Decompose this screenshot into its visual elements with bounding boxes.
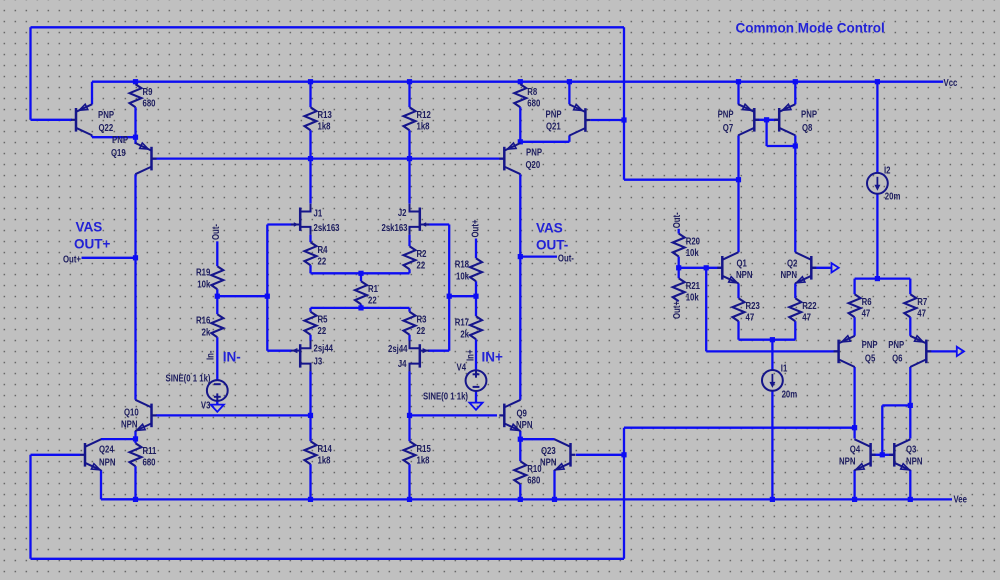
- svg-text:J1: J1: [314, 208, 323, 219]
- svg-text:R8: R8: [527, 86, 537, 97]
- svg-text:2sk163: 2sk163: [382, 222, 408, 233]
- svg-text:SINE(0 1 1k): SINE(0 1 1k): [423, 391, 468, 402]
- svg-text:Q2: Q2: [787, 257, 797, 268]
- svg-text:J4: J4: [398, 358, 407, 369]
- svg-text:Vee: Vee: [954, 494, 967, 505]
- svg-text:1k8: 1k8: [417, 455, 430, 466]
- svg-text:J3: J3: [314, 356, 323, 367]
- svg-text:Q8: Q8: [802, 122, 812, 133]
- svg-text:IN-: IN-: [223, 350, 241, 365]
- svg-text:V4: V4: [457, 362, 467, 373]
- svg-text:V3: V3: [201, 399, 211, 410]
- svg-text:Out-: Out-: [210, 224, 221, 240]
- svg-text:R3: R3: [417, 314, 427, 325]
- svg-text:Out+: Out+: [671, 301, 682, 319]
- svg-text:NPN: NPN: [781, 269, 797, 280]
- svg-text:NPN: NPN: [906, 455, 922, 466]
- svg-text:R11: R11: [143, 445, 157, 456]
- svg-text:R1: R1: [368, 283, 378, 294]
- svg-text:R15: R15: [417, 443, 431, 454]
- svg-text:22: 22: [368, 295, 377, 306]
- svg-text:PNP: PNP: [546, 108, 562, 119]
- svg-text:PNP: PNP: [801, 109, 817, 120]
- svg-text:R7: R7: [917, 296, 927, 307]
- svg-text:22: 22: [417, 325, 426, 336]
- svg-text:R18: R18: [455, 259, 469, 270]
- svg-text:Common Mode Control: Common Mode Control: [736, 21, 885, 36]
- svg-text:Q6: Q6: [892, 352, 902, 363]
- svg-text:Q20: Q20: [526, 159, 541, 170]
- svg-text:22: 22: [318, 256, 327, 267]
- svg-text:PNP: PNP: [98, 109, 114, 120]
- svg-text:NPN: NPN: [516, 419, 532, 430]
- svg-text:R19: R19: [196, 267, 210, 278]
- svg-text:1k8: 1k8: [318, 121, 331, 132]
- svg-text:R5: R5: [318, 314, 328, 325]
- svg-text:R2: R2: [417, 248, 427, 259]
- svg-text:10k: 10k: [686, 292, 699, 303]
- svg-text:Q22: Q22: [99, 122, 114, 133]
- svg-text:10k: 10k: [197, 279, 210, 290]
- svg-text:20m: 20m: [782, 389, 798, 400]
- svg-text:1k8: 1k8: [318, 455, 331, 466]
- svg-text:In+: In+: [465, 350, 476, 361]
- svg-text:Q10: Q10: [124, 407, 139, 418]
- svg-text:22: 22: [417, 260, 426, 271]
- svg-text:Q9: Q9: [517, 408, 527, 419]
- svg-text:OUT-: OUT-: [536, 238, 568, 253]
- svg-text:47: 47: [862, 308, 871, 319]
- svg-text:47: 47: [917, 308, 926, 319]
- svg-text:R12: R12: [417, 109, 431, 120]
- svg-text:2k: 2k: [202, 327, 211, 338]
- svg-text:Q1: Q1: [737, 257, 747, 268]
- svg-text:In-: In-: [205, 350, 216, 360]
- svg-text:Q3: Q3: [906, 443, 916, 454]
- svg-text:R13: R13: [318, 109, 332, 120]
- svg-text:Out-: Out-: [671, 212, 682, 228]
- svg-text:PNP: PNP: [526, 146, 542, 157]
- svg-text:NPN: NPN: [99, 457, 115, 468]
- svg-text:NPN: NPN: [736, 269, 752, 280]
- svg-text:680: 680: [527, 475, 540, 486]
- svg-text:10k: 10k: [686, 247, 699, 258]
- svg-text:R20: R20: [686, 236, 700, 247]
- svg-text:47: 47: [802, 312, 811, 323]
- svg-text:680: 680: [527, 98, 540, 109]
- svg-text:PNP: PNP: [718, 109, 734, 120]
- svg-text:I1: I1: [781, 363, 788, 374]
- svg-text:2sj44: 2sj44: [314, 343, 334, 354]
- svg-text:PNP: PNP: [112, 134, 128, 145]
- svg-text:SINE(0 1 1k): SINE(0 1 1k): [166, 373, 211, 384]
- svg-text:VAS: VAS: [536, 221, 563, 236]
- svg-text:680: 680: [143, 457, 156, 468]
- svg-text:1k8: 1k8: [417, 121, 430, 132]
- svg-text:R4: R4: [318, 244, 328, 255]
- svg-text:I2: I2: [884, 165, 891, 176]
- svg-text:2sj44: 2sj44: [388, 343, 408, 354]
- svg-text:Q24: Q24: [99, 444, 114, 455]
- svg-text:NPN: NPN: [540, 457, 556, 468]
- svg-text:10k: 10k: [456, 271, 469, 282]
- svg-text:Out+: Out+: [63, 253, 81, 264]
- svg-text:Out+: Out+: [469, 220, 480, 238]
- svg-text:2sk163: 2sk163: [314, 222, 340, 233]
- svg-text:R6: R6: [862, 296, 872, 307]
- svg-text:22: 22: [318, 325, 327, 336]
- svg-text:PNP: PNP: [862, 339, 878, 350]
- svg-text:Out-: Out-: [558, 253, 574, 264]
- svg-text:Vcc: Vcc: [944, 77, 958, 88]
- svg-text:R17: R17: [455, 317, 469, 328]
- svg-text:Q7: Q7: [723, 122, 733, 133]
- svg-text:VAS: VAS: [76, 220, 103, 235]
- svg-text:R22: R22: [802, 300, 816, 311]
- svg-text:Q5: Q5: [865, 352, 875, 363]
- svg-text:Q23: Q23: [541, 445, 556, 456]
- svg-text:IN+: IN+: [482, 350, 504, 365]
- svg-text:2k: 2k: [460, 329, 469, 340]
- svg-text:Q4: Q4: [850, 443, 860, 454]
- svg-text:680: 680: [143, 98, 156, 109]
- svg-text:R21: R21: [686, 280, 700, 291]
- svg-text:PNP: PNP: [888, 339, 904, 350]
- svg-text:47: 47: [746, 312, 755, 323]
- svg-text:NPN: NPN: [121, 419, 137, 430]
- svg-text:Q21: Q21: [546, 120, 561, 131]
- svg-text:R23: R23: [746, 300, 760, 311]
- svg-text:J2: J2: [398, 207, 407, 218]
- svg-text:R16: R16: [196, 315, 210, 326]
- svg-text:R9: R9: [143, 86, 153, 97]
- svg-text:NPN: NPN: [839, 455, 855, 466]
- svg-text:Q19: Q19: [111, 147, 126, 158]
- svg-text:OUT+: OUT+: [74, 237, 110, 252]
- svg-text:R14: R14: [318, 443, 332, 454]
- svg-text:20m: 20m: [885, 191, 901, 202]
